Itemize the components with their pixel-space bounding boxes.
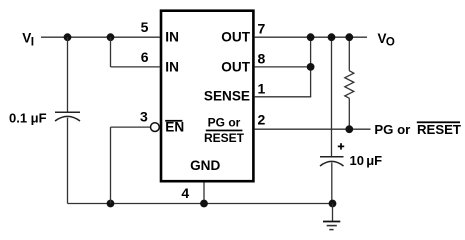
wire: pin 7 OUT to VO: [255, 36, 367, 38]
ground symbol bar 2: [327, 225, 337, 227]
svg-text:7: 7: [258, 20, 266, 36]
svg-text:1: 1: [258, 80, 266, 96]
resistor R1 zigzag body: [345, 71, 354, 99]
junction: input cap tap: [64, 33, 72, 41]
junction: R1 at PG line: [345, 125, 353, 133]
junction: GND at rail: [200, 200, 208, 208]
junction: IN2 branch tap: [107, 33, 115, 41]
svg-text:3: 3: [140, 108, 148, 124]
resistor R1 top lead: [348, 37, 350, 70]
svg-text:5: 5: [141, 19, 149, 35]
wire: pin 6 IN horizontal: [111, 66, 160, 68]
resistor R1 bottom lead: [348, 98, 350, 129]
capacitor C2 bottom lead: [331, 163, 333, 204]
ground symbol bar 3: [329, 229, 333, 231]
svg-text:SENSE: SENSE: [204, 89, 250, 104]
IC U1 body: [161, 11, 253, 182]
wire: pin 8 OUT horizontal: [255, 66, 311, 68]
svg-text:PG or: PG or: [208, 116, 241, 130]
wire: EN vertical: [110, 127, 112, 203]
node PG or RESET label with overline: [374, 121, 461, 137]
capacitor C1 0.1uF top lead: [67, 37, 69, 112]
wire: pin 4 GND lead: [203, 183, 205, 204]
wire: pin 3 EN horizontal: [111, 126, 151, 128]
capacitor C1 bottom lead: [67, 118, 69, 204]
svg-text:μF: μF: [366, 153, 382, 168]
svg-text:10: 10: [350, 153, 364, 168]
node VO label: [378, 31, 395, 49]
junction: EN pulldown at rail: [107, 200, 115, 208]
svg-text:O: O: [386, 37, 395, 49]
capacitor C2 curved bottom plate: [320, 161, 344, 166]
svg-text:0.1 μF: 0.1 μF: [9, 111, 47, 126]
junction: ground tie at rail: [329, 200, 337, 208]
wire: pin 2 PG or RESET horizontal: [255, 128, 371, 130]
svg-text:RESET: RESET: [417, 122, 461, 137]
pin label EN with overline: [165, 120, 184, 135]
svg-text:2: 2: [258, 111, 266, 127]
svg-text:PG or: PG or: [374, 122, 410, 137]
capacitor C1 top plate: [55, 111, 80, 113]
junction: OUT tie at VO rail: [307, 33, 315, 41]
junction: R1 at VO rail: [345, 33, 353, 41]
svg-text:IN: IN: [165, 30, 179, 45]
ground symbol bar 1: [323, 221, 340, 223]
svg-text:GND: GND: [190, 158, 220, 173]
ground symbol stem: [332, 204, 334, 221]
svg-text:6: 6: [141, 49, 149, 65]
svg-text:EN: EN: [165, 120, 184, 135]
wire: pin 1 SENSE horizontal: [255, 96, 312, 98]
svg-text:OUT: OUT: [221, 30, 250, 45]
svg-text:8: 8: [258, 51, 266, 67]
svg-text:OUT: OUT: [221, 60, 250, 75]
wire: bottom ground rail: [68, 203, 333, 205]
capacitor C2 10uF top lead: [331, 37, 333, 157]
svg-text:IN: IN: [165, 60, 179, 75]
wire: OUT/SENSE tie vertical: [310, 37, 312, 97]
svg-text:4: 4: [181, 185, 189, 201]
capacitor C1 curved bottom plate: [55, 116, 80, 121]
junction: C2 at VO rail: [328, 33, 336, 41]
junction: OUT2 tie: [307, 63, 315, 71]
svg-text:RESET: RESET: [204, 131, 245, 145]
wire: branch down to pin 6: [110, 37, 112, 67]
svg-text:I: I: [31, 34, 34, 48]
capacitor C2 plus sign: [338, 143, 344, 149]
pin label PG or / RESET with overline: [204, 116, 245, 145]
capacitor C2 top plate: [320, 156, 344, 158]
EN inversion bubble: [151, 123, 160, 132]
node VI label: [22, 31, 34, 49]
wire: VI to pin 5 IN: [41, 36, 160, 38]
